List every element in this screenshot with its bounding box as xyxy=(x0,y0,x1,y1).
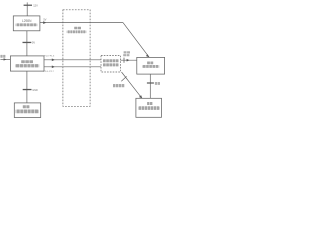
label B3 line2 xyxy=(16,110,39,114)
label D1 line1 xyxy=(74,27,81,30)
label P1.0~P1.3 xyxy=(44,55,55,57)
wire W1 diagonal into motor box xyxy=(123,23,149,58)
label B5 line2 xyxy=(138,106,160,110)
label at W5 tap xyxy=(155,82,160,85)
svg-text:12V: 12V xyxy=(33,3,38,7)
label D1 line2 xyxy=(67,30,87,33)
label 5V at tap xyxy=(32,42,35,45)
svg-text:L298N: L298N xyxy=(22,19,32,23)
svg-text:5V: 5V xyxy=(32,42,35,45)
wire reset arrow xyxy=(0,58,10,60)
wire W4: D2 to motor with bus tick and arrow xyxy=(120,58,136,63)
label 5V on wire W1 xyxy=(43,18,46,21)
label B3 line1 (power) xyxy=(23,105,30,108)
label speed signal xyxy=(113,84,124,87)
svg-text:GND: GND xyxy=(32,89,38,92)
label B4 line2 xyxy=(142,65,159,68)
svg-text:5V: 5V xyxy=(43,18,46,21)
label P2.0~P2.7 xyxy=(44,71,55,73)
wire: B1 to MCU with 5V tap bar xyxy=(23,31,32,56)
wire W5: motor to speed sensor with tap xyxy=(147,74,154,98)
power rail 12V above B1 xyxy=(24,2,32,16)
label reset xyxy=(0,55,5,58)
label B2 line1 (MCU) xyxy=(21,60,33,63)
block B5: speed sensor module xyxy=(136,98,162,117)
label B2 line2 (main control) xyxy=(15,64,39,67)
label 12V xyxy=(33,3,38,7)
label B1 line2 (motor driver) xyxy=(16,23,38,26)
wire W6: feedback diagonal D2 to speed sensor xyxy=(121,72,142,98)
wire W1: B1 output to motor (horizontal) xyxy=(40,21,123,24)
wire W2: MCU P1 signals to driver module xyxy=(44,59,101,62)
wire: MCU to power module with GND tap xyxy=(23,71,32,103)
label B4 line1 (motor) xyxy=(147,62,153,65)
block B2: MCU main control xyxy=(10,56,44,71)
label above D2 row2 xyxy=(123,54,129,56)
label GND xyxy=(32,89,38,92)
block B1: motor driver L298N xyxy=(13,16,40,31)
svg-text:P1.0~P1.3: P1.0~P1.3 xyxy=(44,55,55,57)
label above D2 row1 xyxy=(124,51,130,53)
wire W3: MCU P2 signals to driver module xyxy=(44,66,101,69)
svg-text:P2.0~P2.7: P2.0~P2.7 xyxy=(44,71,55,73)
label D2 line2 xyxy=(103,63,119,66)
dashed region D1: isolation section xyxy=(63,10,90,107)
label B5 line1 xyxy=(147,102,152,105)
block B3: power supply xyxy=(14,103,40,118)
label D2 line1 xyxy=(103,59,119,62)
dashed block D2: driver module xyxy=(101,56,120,73)
block B4: DC motor xyxy=(137,57,165,74)
